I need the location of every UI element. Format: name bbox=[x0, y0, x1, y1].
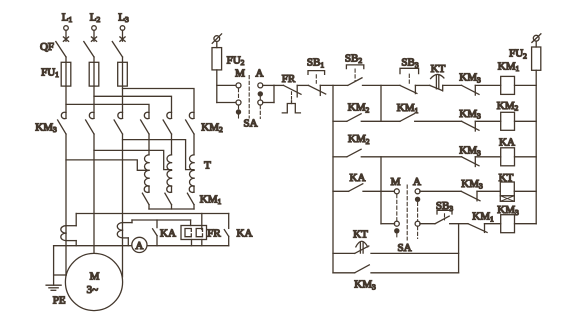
svg-text:KA: KA bbox=[160, 227, 176, 239]
svg-text:T: T bbox=[204, 159, 211, 171]
svg-text:FR: FR bbox=[207, 227, 221, 239]
svg-text:KT: KT bbox=[431, 63, 446, 75]
svg-text:KT: KT bbox=[353, 229, 368, 241]
svg-text:SA: SA bbox=[397, 242, 411, 254]
svg-text:M: M bbox=[235, 68, 245, 80]
svg-text:KA: KA bbox=[499, 136, 515, 148]
svg-text:QF: QF bbox=[40, 41, 54, 53]
svg-text:KA: KA bbox=[350, 172, 366, 184]
svg-text:PE: PE bbox=[53, 295, 66, 307]
svg-text:A: A bbox=[135, 240, 143, 252]
svg-text:SA: SA bbox=[243, 117, 257, 129]
svg-text:M: M bbox=[90, 270, 100, 282]
svg-text:FR: FR bbox=[282, 73, 296, 85]
svg-text:KA: KA bbox=[237, 227, 253, 239]
svg-text:A: A bbox=[256, 68, 264, 80]
svg-text:3~: 3~ bbox=[87, 284, 99, 296]
svg-text:KT: KT bbox=[499, 172, 514, 184]
svg-text:A: A bbox=[413, 176, 421, 188]
svg-text:M: M bbox=[391, 176, 401, 188]
